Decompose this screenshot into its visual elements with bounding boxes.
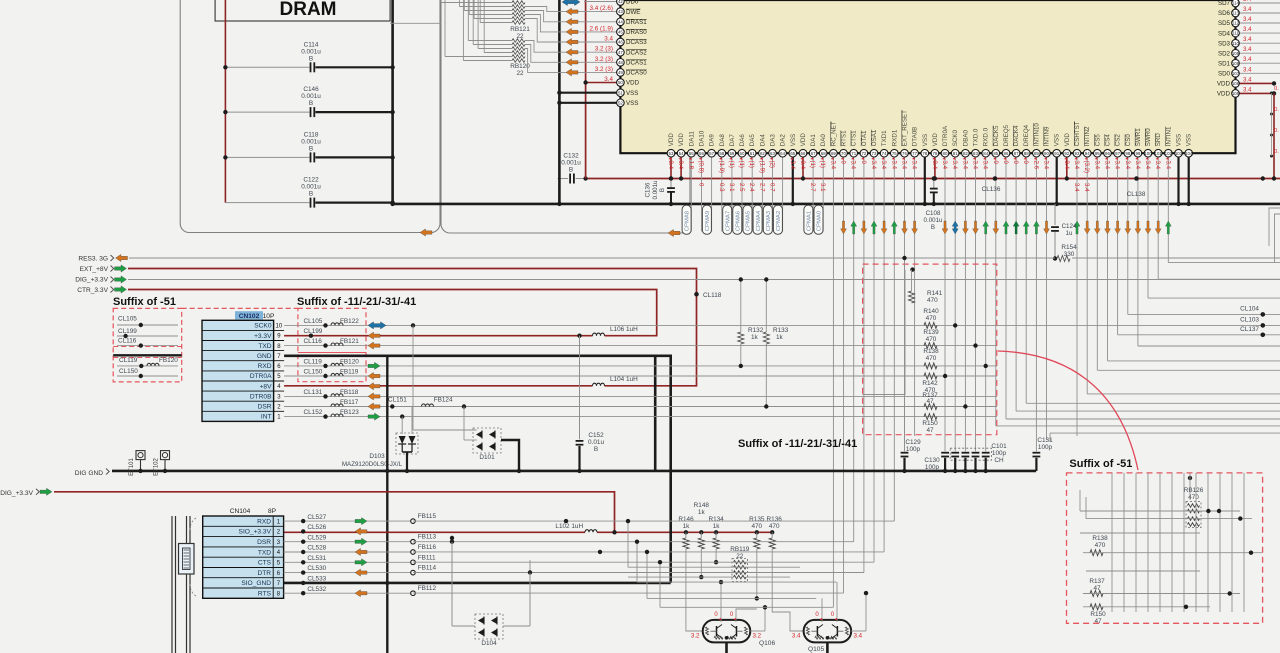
blue arrow DD0 [562, 0, 580, 6]
svg-text:Suffix of -51: Suffix of -51 [113, 296, 176, 308]
pin 48 DCAS1 [525, 45, 620, 63]
svg-text:CN102: CN102 [239, 313, 260, 320]
svg-text:85: 85 [993, 151, 998, 156]
wire CN104 row CL533 [284, 582, 671, 585]
svg-text:INTIN2: INTIN2 [1084, 126, 1091, 146]
svg-text:59: 59 [729, 151, 734, 156]
svg-text:DRAS0: DRAS0 [626, 29, 647, 36]
svg-text:C122: C122 [303, 177, 319, 184]
svg-text:0.001u: 0.001u [924, 217, 943, 224]
svg-text:CL530: CL530 [307, 565, 326, 572]
svg-text:R137: R137 [1089, 578, 1105, 585]
svg-text:DACK5: DACK5 [993, 125, 1000, 146]
svg-text:103: 103 [1175, 151, 1183, 156]
svg-text:CPMA3: CPMA3 [766, 210, 772, 231]
svg-text:3.4: 3.4 [1164, 161, 1171, 170]
svg-text:R146: R146 [678, 516, 694, 523]
svg-text:R132: R132 [748, 327, 764, 334]
svg-text:65: 65 [790, 151, 795, 156]
svg-text:Suffix of -11/-21/-31/-41: Suffix of -11/-21/-31/-41 [738, 438, 857, 450]
svg-text:DTA0B: DTA0B [912, 127, 919, 146]
svg-text:CL199: CL199 [304, 328, 323, 335]
wire maze extra rows [628, 566, 800, 568]
svg-text:D103: D103 [369, 453, 385, 460]
svg-text:C132: C132 [563, 153, 579, 160]
arrow row under IC [841, 221, 847, 234]
svg-text:DA5: DA5 [749, 134, 756, 147]
svg-text:C114: C114 [304, 41, 319, 48]
svg-text:CL150: CL150 [119, 368, 138, 375]
svg-text:100: 100 [1144, 151, 1152, 156]
svg-text:CPMA0: CPMA0 [817, 210, 823, 231]
svg-text:101: 101 [1155, 151, 1163, 156]
svg-text:1k: 1k [776, 334, 784, 341]
svg-text:1u: 1u [1066, 230, 1073, 237]
svg-text:EXT_+8V: EXT_+8V [80, 266, 109, 273]
svg-text:3.4: 3.4 [880, 161, 887, 170]
svg-text:96: 96 [1105, 151, 1110, 156]
svg-text:2.6: 2.6 [1032, 161, 1039, 170]
wire CTR_3.3V to L106 [128, 290, 657, 336]
wire CN104 row CL532 [284, 592, 413, 594]
pin 49 DCAS0 [525, 49, 620, 73]
svg-text:(1.9): (1.9) [718, 161, 725, 174]
svg-text:CL119: CL119 [304, 358, 323, 365]
svg-text:C124: C124 [1062, 223, 1077, 230]
net tag CPMA7 [723, 205, 732, 234]
svg-text:470: 470 [926, 355, 937, 362]
svg-text:DREQ4: DREQ4 [1023, 124, 1030, 146]
svg-text:VDD: VDD [1217, 91, 1231, 98]
svg-text:SD6: SD6 [1218, 10, 1231, 17]
svg-text:DRAM: DRAM [280, 0, 337, 20]
suffix -51 dashed box left [113, 308, 182, 382]
svg-text:INT: INT [261, 414, 272, 421]
svg-text:GND: GND [257, 353, 272, 360]
svg-text:3.4: 3.4 [1243, 26, 1252, 33]
svg-text:108: 108 [1232, 61, 1240, 66]
svg-text:R154: R154 [1061, 244, 1077, 251]
svg-text:CL118: CL118 [703, 292, 722, 299]
svg-text:470: 470 [926, 336, 937, 343]
svg-text:VDD: VDD [1064, 133, 1071, 147]
wire GND black bus [393, 203, 1280, 206]
svg-text:L106 1uH: L106 1uH [610, 326, 638, 333]
svg-text:99: 99 [1135, 151, 1140, 156]
svg-text:3.4: 3.4 [870, 161, 877, 170]
node CL137 [1261, 333, 1266, 338]
svg-text:RTS: RTS [258, 591, 272, 598]
svg-text:CL136: CL136 [982, 186, 1001, 193]
wire VDD red bus [586, 178, 1280, 180]
capacitor C132 [569, 174, 571, 184]
svg-text:CL533: CL533 [307, 576, 326, 583]
wire CN104 row CL528 [284, 551, 413, 553]
svg-text:DREQ5: DREQ5 [1003, 124, 1010, 146]
wire DTR0A row [284, 375, 997, 377]
wire D103 bus vertical [386, 356, 388, 653]
svg-text:10: 10 [276, 324, 283, 330]
svg-text:CL199: CL199 [118, 328, 137, 335]
svg-text:47: 47 [618, 50, 623, 55]
svg-text:114: 114 [1232, 1, 1240, 6]
svg-text:(1.9): (1.9) [758, 161, 765, 174]
svg-text:C108: C108 [926, 210, 941, 217]
wire DIG_+3.3V lower [54, 492, 615, 533]
svg-text:83: 83 [973, 151, 978, 156]
svg-text:C101: C101 [991, 443, 1007, 450]
wire staircase to RB120 [467, 0, 469, 41]
svg-text:TXD1: TXD1 [881, 130, 888, 146]
svg-text:SD1: SD1 [1218, 61, 1231, 68]
svg-text:SD7: SD7 [1218, 0, 1231, 7]
svg-text:(1): (1) [819, 161, 826, 168]
svg-text:3.4: 3.4 [972, 161, 979, 170]
svg-text:3.4 (2.6): 3.4 (2.6) [590, 5, 613, 12]
svg-text:3.4: 3.4 [1043, 161, 1050, 170]
svg-text:SCK0: SCK0 [254, 323, 272, 330]
svg-text:(3.2): (3.2) [1083, 161, 1090, 174]
wire right VDD vertical [1273, 93, 1275, 178]
node VDD bus junction [583, 176, 587, 180]
junction dots suffix box [1206, 509, 1210, 513]
svg-text:52: 52 [618, 100, 623, 105]
svg-text:FB115: FB115 [418, 513, 437, 520]
svg-text:L102 1uH: L102 1uH [555, 523, 583, 530]
svg-text:0: 0 [992, 161, 999, 165]
svg-text:81: 81 [953, 151, 958, 156]
svg-text:3.4: 3.4 [1063, 161, 1070, 170]
wire EXT_+8V to L104 [128, 269, 697, 386]
wire D101 to gnd [501, 440, 519, 471]
svg-text:(1): (1) [738, 161, 745, 168]
svg-text:DA1: DA1 [810, 134, 817, 147]
svg-text:DACK4: DACK4 [1013, 125, 1020, 146]
resistor R138 [924, 363, 937, 369]
svg-text:3.4: 3.4 [1243, 56, 1252, 63]
svg-text:72: 72 [861, 151, 866, 156]
svg-text:R139: R139 [923, 329, 939, 336]
svg-text:VDD: VDD [932, 133, 939, 147]
svg-text:53: 53 [669, 151, 674, 156]
svg-text:OSA1: OSA1 [871, 129, 878, 146]
svg-text:66: 66 [801, 151, 806, 156]
svg-text:C130: C130 [924, 457, 940, 464]
svg-text:B: B [309, 145, 313, 152]
connector CN102 [202, 320, 274, 421]
pin 44 DRAS1 [525, 11, 620, 22]
pin 42 DD0 [584, 1, 620, 3]
svg-text:1k: 1k [683, 523, 691, 530]
svg-text:CS0: CS0 [1125, 134, 1132, 147]
svg-text:0.01u: 0.01u [588, 439, 604, 446]
svg-text:58: 58 [719, 151, 724, 156]
svg-text:CS5: CS5 [1094, 134, 1101, 147]
net tag CPMA3 [763, 205, 772, 234]
svg-text:86: 86 [1004, 151, 1009, 156]
svg-text:95: 95 [1095, 151, 1100, 156]
svg-text:CPMA2: CPMA2 [776, 211, 782, 231]
svg-text:DCAS2: DCAS2 [626, 49, 647, 56]
svg-text:CN104: CN104 [230, 508, 251, 515]
terminal ET102 [161, 451, 170, 460]
svg-text:3.4: 3.4 [1243, 16, 1252, 23]
svg-text:DA3: DA3 [770, 134, 777, 147]
svg-text:VSS: VSS [1176, 134, 1183, 146]
svg-text:VSS: VSS [922, 134, 929, 146]
svg-text:0.001u: 0.001u [301, 48, 321, 55]
net tag CPMA0 [814, 205, 823, 234]
pin 43 DWE [525, 7, 620, 12]
connector CN104 mate [171, 516, 173, 653]
svg-text:CTS1: CTS1 [851, 130, 858, 146]
svg-text:R150: R150 [922, 420, 938, 427]
wire TXD row [284, 345, 997, 347]
svg-text:0.001u: 0.001u [301, 138, 321, 145]
wire Q105 leads [821, 598, 823, 622]
svg-text:ET101: ET101 [129, 458, 135, 476]
svg-text:CPMA6: CPMA6 [735, 210, 741, 231]
svg-text:94: 94 [1085, 151, 1090, 156]
net tag CPMA6 [733, 205, 742, 234]
svg-text:DBA0: DBA0 [962, 129, 969, 146]
svg-text:2.5: 2.5 [738, 183, 745, 192]
svg-text:54: 54 [679, 151, 684, 156]
svg-text:92: 92 [1064, 151, 1069, 156]
svg-text:112: 112 [1232, 21, 1240, 26]
svg-text:80: 80 [943, 151, 948, 156]
svg-text:CPMA8: CPMA8 [685, 210, 691, 231]
svg-text:3.4: 3.4 [604, 76, 613, 83]
svg-text:109: 109 [1232, 51, 1240, 56]
svg-text:CPMA7: CPMA7 [725, 211, 731, 231]
svg-text:51: 51 [618, 90, 623, 95]
wire DTR0B row [284, 395, 997, 397]
svg-text:10P: 10P [263, 313, 275, 320]
svg-text:3.4: 3.4 [901, 161, 908, 170]
svg-text:DTR0A: DTR0A [250, 373, 272, 380]
svg-text:60: 60 [740, 151, 745, 156]
resistor R137 [924, 404, 937, 410]
svg-text:3.2 (3): 3.2 (3) [595, 66, 613, 73]
svg-text:3.4: 3.4 [982, 161, 989, 170]
svg-text:DIG_+3.3V: DIG_+3.3V [0, 490, 33, 497]
svg-text:CL105: CL105 [118, 316, 137, 323]
svg-text:B: B [309, 55, 313, 62]
suffix -51 dashed box bottom right [1067, 473, 1263, 623]
svg-text:TXD: TXD [258, 549, 271, 556]
svg-text:0.: 0. [1274, 128, 1279, 134]
svg-text:49: 49 [618, 70, 623, 75]
svg-text:470: 470 [751, 523, 762, 530]
svg-text:0.: 0. [1274, 107, 1279, 113]
wire DSR row [284, 406, 997, 408]
svg-text:DCAS3: DCAS3 [626, 39, 647, 46]
svg-text:0.: 0. [1274, 86, 1279, 92]
svg-text:B: B [594, 446, 598, 453]
svg-text:FB116: FB116 [418, 544, 437, 551]
svg-text:1k: 1k [698, 509, 706, 516]
svg-text:DA0: DA0 [820, 134, 827, 147]
svg-text:46: 46 [618, 40, 623, 45]
svg-text:3.2 (3): 3.2 (3) [595, 56, 613, 63]
op-amp U1 main IC body [620, 0, 1235, 153]
svg-text:Q106: Q106 [759, 640, 775, 647]
svg-text:3.4: 3.4 [1243, 0, 1252, 3]
svg-text:CL529: CL529 [307, 534, 326, 541]
pin 107 SD0 [1236, 72, 1280, 74]
svg-text:50: 50 [618, 80, 623, 85]
wire CN104 row CL529 [284, 541, 413, 543]
svg-text:SWR1: SWR1 [1135, 128, 1142, 146]
svg-text:RXD: RXD [258, 363, 272, 370]
wire DRAM box feed [390, 22, 441, 24]
svg-text:SD3: SD3 [1218, 40, 1231, 47]
resistor network RB120 [512, 39, 525, 43]
svg-text:57: 57 [709, 151, 714, 156]
svg-text:EXT_RESET: EXT_RESET [902, 110, 909, 146]
svg-text:Suffix of -51: Suffix of -51 [1069, 458, 1132, 470]
svg-text:1k: 1k [713, 523, 721, 530]
svg-text:3.4: 3.4 [941, 161, 948, 170]
svg-text:3.4: 3.4 [829, 161, 836, 170]
svg-text:SCK0: SCK0 [952, 129, 959, 146]
svg-text:C152: C152 [588, 432, 604, 439]
svg-text:B: B [931, 224, 935, 231]
node CL138 [1134, 176, 1139, 181]
svg-text:470: 470 [1095, 542, 1106, 549]
svg-text:CPMA9: CPMA9 [705, 211, 711, 231]
svg-text:SIO_+3.3V: SIO_+3.3V [239, 529, 272, 536]
svg-text:3.4: 3.4 [604, 36, 613, 43]
svg-text:2.4: 2.4 [748, 183, 755, 192]
svg-text:RTS1: RTS1 [841, 130, 848, 146]
svg-text:CL104: CL104 [1240, 306, 1259, 313]
svg-text:C131: C131 [1037, 437, 1053, 444]
svg-text:47: 47 [926, 427, 934, 434]
wire SCK0 drop to D101 [411, 323, 415, 327]
svg-text:68: 68 [821, 151, 826, 156]
svg-text:RXD1: RXD1 [891, 129, 898, 146]
svg-text:330: 330 [1064, 251, 1075, 258]
pin 47 DCAS2 [525, 41, 620, 53]
svg-text:+3.3V: +3.3V [254, 333, 272, 340]
svg-text:RC_NET: RC_NET [830, 121, 837, 146]
svg-text:DD0: DD0 [626, 0, 639, 6]
pin 106 VDD [1236, 82, 1275, 84]
svg-text:VSS: VSS [626, 90, 638, 97]
svg-text:RXD.0: RXD.0 [983, 127, 990, 146]
svg-text:SD0: SD0 [1218, 71, 1231, 78]
svg-text:VSS: VSS [790, 134, 797, 146]
svg-text:87: 87 [1014, 151, 1019, 156]
svg-text:3.4: 3.4 [1104, 161, 1111, 170]
resistor R150 [924, 414, 937, 420]
svg-text:Suffix of -11/-21/-31/-41: Suffix of -11/-21/-31/-41 [297, 296, 416, 308]
svg-text:107: 107 [1232, 71, 1240, 76]
svg-text:100p: 100p [906, 446, 921, 453]
svg-text:VDD: VDD [678, 133, 685, 147]
svg-text:SIO_GND: SIO_GND [241, 580, 271, 587]
pin 52 VSS [559, 102, 620, 104]
capacitor C152 [579, 336, 581, 440]
svg-text:1.8: 1.8 [687, 161, 694, 170]
svg-text:91: 91 [1054, 151, 1059, 156]
terminal ET101 [136, 451, 145, 460]
pin 114 SD7 [1236, 2, 1280, 4]
resistor R139 [924, 343, 937, 349]
svg-text:DCAS0: DCAS0 [626, 70, 647, 77]
svg-text:22: 22 [516, 70, 524, 77]
pin 51 VSS [559, 92, 620, 94]
svg-text:8P: 8P [268, 508, 277, 515]
svg-text:3.4: 3.4 [1134, 161, 1141, 170]
svg-text:79: 79 [932, 151, 937, 156]
svg-text:INTIN1: INTIN1 [1165, 126, 1172, 146]
container box right [441, 0, 690, 233]
wire black vertical GND left [558, 0, 561, 204]
svg-text:CPMA1: CPMA1 [807, 211, 813, 231]
svg-text:R141: R141 [927, 290, 943, 297]
svg-text:DA7: DA7 [729, 134, 736, 147]
ferrite bead FB124 [422, 404, 434, 407]
svg-text:3.4: 3.4 [911, 161, 918, 170]
svg-text:OTA1: OTA1 [861, 130, 868, 146]
svg-text:56: 56 [699, 151, 704, 156]
svg-text:104: 104 [1185, 151, 1193, 156]
svg-text:CL150: CL150 [304, 368, 323, 375]
svg-text:CL105: CL105 [304, 318, 323, 325]
svg-text:Q105: Q105 [808, 646, 824, 653]
svg-text:SWR0: SWR0 [1145, 128, 1152, 146]
net tag CPMA5 [743, 205, 752, 234]
svg-text:3.4: 3.4 [789, 161, 796, 170]
net tag CPMA8 [682, 205, 691, 234]
svg-text:48: 48 [618, 60, 623, 65]
svg-text:R138: R138 [1092, 535, 1108, 542]
svg-text:71: 71 [851, 151, 856, 156]
svg-text:(2): (2) [769, 161, 776, 168]
wire CN104 row CL530 [284, 572, 413, 574]
svg-text:0.3: 0.3 [718, 183, 725, 192]
svg-text:0.001u: 0.001u [301, 184, 321, 191]
svg-text:CSHTST: CSHTST [1074, 121, 1081, 146]
svg-text:CL116: CL116 [304, 338, 323, 345]
arrows CN102 rows [368, 322, 386, 329]
svg-text:70: 70 [841, 151, 846, 156]
svg-text:DTR0A: DTR0A [942, 125, 949, 146]
wire SIO3.3 L102 line [284, 531, 585, 533]
svg-text:B: B [569, 167, 573, 174]
svg-text:44: 44 [618, 19, 623, 24]
svg-text:3.2: 3.2 [753, 633, 762, 640]
wire right edge entries [1269, 208, 1280, 246]
svg-text:DTR0B: DTR0B [250, 393, 272, 400]
svg-text:110: 110 [1232, 41, 1240, 46]
svg-text:89: 89 [1034, 151, 1039, 156]
svg-text:R135: R135 [749, 516, 765, 523]
svg-text:102: 102 [1165, 151, 1173, 156]
svg-text:3.4: 3.4 [1243, 46, 1252, 53]
svg-text:3.4: 3.4 [1093, 161, 1100, 170]
svg-text:VDD: VDD [800, 133, 807, 147]
svg-text:VSS: VSS [626, 100, 638, 107]
diode array D101 [473, 428, 501, 453]
wire D104 links [452, 625, 475, 627]
pin 46 DCAS3 [525, 19, 620, 43]
svg-text:0.001u: 0.001u [652, 180, 659, 199]
svg-text:3.4: 3.4 [1154, 161, 1161, 170]
